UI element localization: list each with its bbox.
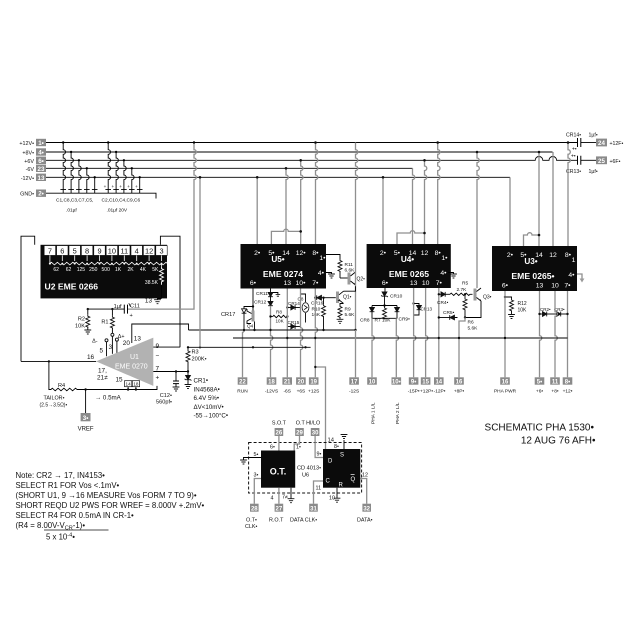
svg-text:ΔV<10mV•: ΔV<10mV•	[194, 404, 224, 411]
svg-text:-6S: -6S	[283, 388, 290, 394]
wire PHA PWR column	[504, 291, 506, 377]
svg-text:SELECT R4 FOR 0.5mA IN CR-1•: SELECT R4 FOR 0.5mA IN CR-1•	[16, 511, 135, 520]
svg-text:Q4: Q4	[247, 324, 254, 329]
wire supply feeds U3 top pins	[510, 143, 570, 247]
svg-text:R10: R10	[312, 307, 321, 313]
svg-text:U2 EME 0266: U2 EME 0266	[45, 282, 99, 292]
svg-text:R12: R12	[518, 301, 527, 307]
svg-text:13: 13	[410, 280, 418, 287]
svg-text:29: 29	[296, 431, 303, 437]
resistor R4 TAILOR	[40, 383, 78, 409]
wire bus C	[188, 346, 311, 348]
svg-text:250: 250	[89, 267, 98, 273]
svg-text:SELECT R1 FOR Vos <.1mV•: SELECT R1 FOR Vos <.1mV•	[16, 481, 120, 490]
wire supply feeds U5 top pins	[257, 143, 318, 245]
svg-text:R8: R8	[276, 310, 282, 315]
node trim terminal plus	[115, 334, 124, 353]
pin 21 -6S	[282, 377, 292, 394]
svg-text:+: +	[156, 375, 160, 382]
svg-text:+12F•: +12F•	[610, 141, 624, 147]
svg-text:7•: 7•	[436, 280, 443, 287]
diode CR17	[221, 307, 253, 331]
pin 23 (-6V)	[26, 165, 46, 173]
svg-text:11: 11	[316, 486, 322, 492]
wire U2 left loop to U1 pin 16	[21, 236, 35, 361]
pin 4 (+8V)	[22, 148, 46, 156]
diode CR14 mid	[286, 301, 300, 310]
resistor R11 6.6K	[326, 255, 355, 279]
svg-text:200K•: 200K•	[192, 357, 207, 363]
svg-text:TAILOR•: TAILOR•	[44, 395, 65, 401]
svg-text:CR9•: CR9•	[399, 317, 411, 323]
op-amp U1 EME 0270	[96, 338, 153, 387]
svg-text:CR2•: CR2•	[540, 307, 551, 312]
pin 29 O.T HI/LO	[295, 421, 320, 437]
svg-text:38.5K: 38.5K	[145, 280, 159, 286]
node -6V rail	[46, 167, 413, 169]
svg-text:(SHORT U1, 9 →16 MEASURE Vos: (SHORT U1, 9 →16 MEASURE Vos FORM 7 TO 9…	[16, 491, 197, 500]
svg-text:6•: 6•	[38, 158, 44, 165]
transistor Q3	[474, 288, 492, 302]
svg-text:9: 9	[97, 246, 101, 255]
svg-text:+12•: +12•	[563, 388, 573, 394]
svg-text:4: 4	[135, 246, 139, 255]
svg-text:4•: 4•	[318, 270, 325, 277]
IC CD4013 flip-flop	[323, 449, 360, 488]
svg-text:U5•: U5•	[271, 255, 284, 264]
svg-text:Q3•: Q3•	[483, 295, 492, 301]
capacitor C11 1uf	[114, 303, 140, 319]
svg-text:30: 30	[312, 431, 319, 437]
wire U5 pin 13 column	[286, 289, 288, 378]
svg-text:8•: 8•	[334, 444, 339, 450]
svg-text:EME 0265: EME 0265	[389, 269, 429, 279]
node +12V rail	[46, 142, 578, 144]
pin 28 O.T CLK	[245, 504, 259, 530]
pin 1 (+12V)	[19, 139, 46, 147]
svg-text:CR11: CR11	[256, 291, 268, 297]
svg-text:1µf•: 1µf•	[589, 169, 598, 175]
svg-text:+: +	[104, 184, 107, 189]
svg-text:11: 11	[120, 246, 128, 255]
svg-text:4•: 4•	[38, 150, 44, 157]
wire +12V to Q2 / -12S column	[356, 143, 358, 331]
wire U1 pin 7 net	[153, 370, 189, 372]
svg-text:6•: 6•	[250, 280, 257, 287]
svg-text:-12V•: -12V•	[21, 176, 34, 182]
svg-text:5•: 5•	[537, 380, 542, 386]
wire U1 pin 16	[21, 360, 96, 362]
svg-text:125: 125	[77, 267, 86, 273]
wire 31 to flip-flop C pin 11	[314, 481, 324, 504]
svg-text:+: +	[112, 184, 115, 189]
svg-text:+: +	[119, 184, 122, 189]
svg-text:28: 28	[251, 506, 258, 512]
svg-text:6•: 6•	[270, 445, 275, 451]
svg-text:2•: 2•	[507, 252, 514, 259]
svg-text:C2,C10,C4,C9,C6: C2,C10,C4,C9,C6	[102, 198, 141, 204]
svg-text:RUN: RUN	[237, 388, 248, 394]
diode CR13	[412, 288, 432, 315]
wire SOT to pin 6	[270, 436, 279, 451]
svg-text:24: 24	[598, 140, 605, 147]
pin 11 +8	[550, 377, 560, 394]
svg-text:9•: 9•	[317, 452, 322, 458]
svg-text:5•: 5•	[394, 250, 401, 257]
svg-text:12: 12	[549, 252, 557, 259]
svg-text:Q: Q	[351, 477, 356, 483]
svg-text:R9: R9	[345, 307, 351, 313]
svg-text:S: S	[340, 453, 344, 459]
wire -12V feed to U1 pin 13 via bus jog	[132, 324, 189, 343]
pin 31 DATA CLK	[290, 504, 318, 524]
svg-text:CR15: CR15	[288, 320, 300, 325]
svg-text:3: 3	[109, 344, 113, 351]
svg-text:-12VS: -12VS	[265, 388, 278, 394]
svg-text:10•: 10•	[296, 280, 307, 287]
svg-text:C: C	[326, 478, 331, 484]
svg-text:S.O.T: S.O.T	[272, 421, 287, 427]
pin 18 -12VS	[265, 377, 278, 394]
svg-text:2•: 2•	[254, 250, 261, 257]
wire bus A (-12 sense)	[189, 329, 357, 331]
svg-text:12: 12	[145, 246, 153, 255]
svg-text:O.T.: O.T.	[270, 467, 287, 477]
pin 5 +6	[535, 377, 545, 394]
svg-text:CR5•: CR5•	[443, 310, 455, 316]
ground at U4 pin 4	[448, 273, 457, 279]
resistor chain 62..5K inside U2	[50, 255, 174, 265]
svg-text:+12V•: +12V•	[19, 141, 34, 147]
svg-text:+6•: +6•	[536, 388, 543, 394]
diode CR16	[311, 295, 336, 306]
wire C11 bias net from +12V	[88, 143, 197, 310]
svg-text:1•: 1•	[319, 255, 326, 262]
svg-text:13: 13	[38, 175, 45, 182]
pin 16 +8P	[454, 377, 465, 394]
pin labels U1	[87, 336, 160, 384]
svg-text:20: 20	[298, 380, 305, 386]
wire U5 pin 10 column	[301, 289, 303, 378]
svg-text:5K: 5K	[152, 267, 159, 273]
wire +8 column	[555, 291, 557, 377]
svg-text:8•: 8•	[435, 250, 442, 257]
wire 28 to O.T. pin 3	[254, 473, 262, 504]
pin 25 (+6F)	[596, 156, 621, 164]
capacitor CR14 1uf	[566, 133, 598, 153]
resistor R2 10K	[75, 308, 91, 334]
svg-text:18: 18	[133, 381, 139, 386]
diode CR6	[439, 301, 481, 320]
svg-text:16K: 16K	[312, 312, 321, 318]
pin 6 (+6V)	[24, 157, 46, 165]
pin 24 (+12F)	[596, 139, 623, 147]
svg-text:EME 0274: EME 0274	[263, 269, 303, 279]
svg-text:12: 12	[362, 473, 368, 479]
diode CR15 mid	[287, 320, 300, 329]
transistor C8 oval	[298, 294, 309, 323]
svg-text:5•: 5•	[254, 452, 259, 458]
svg-text:CD 4013•: CD 4013•	[297, 466, 321, 472]
diode CR9	[372, 306, 410, 323]
svg-text:7≠: 7≠	[282, 495, 288, 501]
IC U4 EME 0265	[367, 244, 451, 288]
svg-text:+6V: +6V	[24, 159, 34, 165]
svg-text:4K: 4K	[140, 267, 147, 273]
node CD 4013 U6 label	[297, 466, 321, 479]
svg-text:R2: R2	[78, 317, 85, 323]
wire supply feeds U4 top pins	[383, 143, 440, 245]
svg-text:7•: 7•	[564, 283, 571, 290]
svg-text:R11: R11	[345, 262, 354, 268]
node -12V rail	[46, 176, 510, 178]
svg-text:-12P•: -12P•	[434, 388, 446, 394]
svg-text:12•: 12•	[296, 250, 307, 257]
node schematic title	[485, 423, 596, 447]
pin 9 -15P	[408, 377, 420, 394]
svg-text:7•: 7•	[312, 280, 319, 287]
svg-text:O.T HI/LO: O.T HI/LO	[296, 421, 320, 427]
svg-text:1•: 1•	[38, 140, 44, 147]
pin 19 +12S	[308, 377, 319, 394]
pin 27 R.O.T	[269, 504, 284, 524]
diode CR10 zener	[381, 288, 402, 307]
wire RUN column	[243, 330, 245, 377]
wire bus B	[233, 337, 568, 339]
svg-text:21: 21	[284, 380, 291, 386]
svg-text:5.6K: 5.6K	[345, 312, 356, 318]
wire O.T. pin 4 to 27	[271, 488, 279, 504]
svg-text:+6S: +6S	[297, 388, 306, 394]
svg-text:+: +	[135, 184, 138, 189]
transistor Q4	[247, 307, 255, 331]
pin 15 +12P	[420, 377, 433, 394]
svg-text:500: 500	[102, 267, 111, 273]
svg-text:C1,C8,C3,C7,C5,: C1,C8,C3,C7,C5,	[56, 198, 93, 204]
svg-text:5: 5	[100, 348, 104, 355]
svg-text:4•: 4•	[440, 270, 447, 277]
svg-text:R5: R5	[462, 281, 468, 287]
svg-text:CR17: CR17	[221, 312, 235, 318]
svg-text:-15P•: -15P•	[408, 388, 420, 394]
svg-text:C11: C11	[130, 304, 140, 310]
svg-text:3•: 3•	[254, 473, 259, 479]
svg-text:.01µf: .01µf	[66, 208, 77, 214]
svg-text:16: 16	[87, 354, 95, 361]
wire +8P column	[458, 318, 465, 378]
svg-text:CR8: CR8	[360, 318, 370, 324]
svg-text:+•: +•	[571, 154, 576, 160]
IC U5 EME 0274	[241, 244, 327, 289]
wire -12S column	[355, 330, 357, 377]
svg-text:8•: 8•	[565, 380, 570, 386]
capacitor bank C1,C8,C3,C7,C5	[60, 143, 139, 194]
wire 30 to pin 9 D	[315, 436, 323, 458]
svg-text:O.T•: O.T•	[246, 518, 257, 524]
svg-text:+8•: +8•	[551, 388, 558, 394]
svg-text:3•: 3•	[83, 415, 89, 422]
diode CR11	[256, 289, 280, 297]
resistor R8	[269, 310, 288, 324]
svg-text:→ 0.5mA: → 0.5mA	[95, 394, 122, 401]
diode CR2	[540, 307, 557, 316]
svg-text:CR14: CR14	[288, 301, 300, 306]
svg-text:6: 6	[60, 246, 64, 255]
pin 13 (-12V)	[21, 174, 46, 182]
svg-text:10•: 10•	[392, 380, 401, 386]
svg-text:13: 13	[134, 336, 142, 343]
pin 20 +6S	[296, 377, 306, 394]
svg-text:10K: 10K	[276, 319, 285, 324]
svg-text:9•: 9•	[411, 380, 416, 386]
svg-text:1µf: 1µf	[114, 304, 122, 310]
resistor R10 16K	[312, 298, 326, 330]
svg-text:1•: 1•	[296, 445, 301, 451]
svg-text:+8V•: +8V•	[22, 151, 34, 157]
svg-text:1K: 1K	[115, 267, 122, 273]
svg-text:Q2•: Q2•	[357, 277, 366, 283]
svg-text:R1: R1	[101, 320, 108, 326]
svg-text:560pf•: 560pf•	[156, 400, 172, 406]
svg-text:PHA 2 L/L: PHA 2 L/L	[395, 402, 401, 424]
transistor Q2	[340, 272, 365, 285]
transistor Q1	[336, 286, 356, 305]
svg-text:62: 62	[66, 267, 72, 273]
wire +8V to Q3	[476, 151, 480, 288]
pin 10 PHA 2 L/L	[392, 377, 402, 424]
wire -12V aux column	[199, 176, 202, 347]
svg-text:+: +	[127, 184, 130, 189]
IC U3 EME 0265	[492, 246, 577, 291]
pin 26 S.O.T	[272, 421, 287, 437]
svg-text:Δ-: Δ-	[92, 339, 98, 345]
svg-text:10K: 10K	[75, 324, 85, 330]
svg-text:1: 1	[572, 257, 576, 264]
svg-text:DATA CLK•: DATA CLK•	[290, 518, 317, 524]
svg-text:DATA•: DATA•	[357, 518, 373, 524]
wire +6 column	[538, 291, 542, 377]
node trim terminal minus	[92, 339, 108, 357]
svg-text:62: 62	[53, 267, 59, 273]
ground at flip-flop R pin 10	[329, 488, 340, 503]
svg-text:+12P•: +12P•	[420, 388, 433, 394]
svg-text:CR13: CR13	[421, 307, 433, 312]
svg-text:2K: 2K	[127, 267, 134, 273]
value label .01uf 20V group2	[102, 198, 141, 214]
svg-text:10: 10	[329, 496, 335, 502]
svg-text:EME 0265•: EME 0265•	[511, 271, 554, 281]
pin 8 +12	[563, 377, 573, 394]
diode CR3	[554, 307, 568, 316]
pin 10 PHA 1 L/L	[367, 377, 377, 424]
flip-flop module dashed box U6	[249, 443, 362, 494]
svg-text:Note: CR2 → 17, IN4153•: Note: CR2 → 17, IN4153•	[16, 471, 106, 480]
resistor R3 200K	[186, 346, 207, 371]
svg-text:U1: U1	[130, 354, 139, 361]
svg-text:19: 19	[310, 380, 317, 386]
svg-text:6•: 6•	[502, 283, 509, 290]
node pin 14 label	[328, 438, 335, 444]
svg-text:CR4•: CR4•	[437, 300, 449, 306]
svg-text:-12S: -12S	[349, 388, 359, 394]
svg-text:6•: 6•	[382, 280, 389, 287]
wire VREF / tailor row	[49, 361, 157, 390]
svg-text:SCHEMATIC PHA 1530•: SCHEMATIC PHA 1530•	[485, 423, 595, 434]
wire U4 pin 13 column	[414, 288, 416, 377]
resistor R6 5.6K	[463, 294, 478, 331]
svg-text:32: 32	[363, 506, 370, 512]
svg-text:2•: 2•	[38, 191, 44, 198]
IC O.T.	[261, 451, 295, 488]
wire U1 pin 9 feedback	[153, 346, 180, 348]
note text block	[16, 471, 205, 542]
svg-text:20: 20	[123, 340, 131, 347]
wire U4 pin 10 column	[426, 288, 428, 377]
svg-text:16: 16	[456, 380, 463, 386]
diode CR1 IN4568A zener	[185, 372, 228, 420]
svg-text:-55→100°C•: -55→100°C•	[194, 413, 229, 420]
svg-text:13: 13	[145, 298, 153, 305]
svg-text:14: 14	[126, 381, 132, 386]
svg-text:CR16: CR16	[311, 301, 324, 307]
svg-text:8•: 8•	[312, 250, 319, 257]
resistor 38.5K	[145, 264, 164, 286]
svg-text:7: 7	[48, 246, 52, 255]
svg-text:EME 0270: EME 0270	[115, 364, 148, 371]
ground at O.T. pin 7	[282, 488, 294, 503]
svg-text:14: 14	[435, 380, 442, 386]
svg-text:(2.5→3.5Ω)•: (2.5→3.5Ω)•	[40, 402, 68, 408]
svg-text:1•: 1•	[441, 255, 448, 262]
svg-text:8: 8	[85, 246, 89, 255]
pin 30	[311, 428, 320, 437]
svg-text:U3•: U3•	[524, 257, 537, 266]
svg-text:16: 16	[502, 380, 509, 386]
svg-text:10: 10	[369, 380, 376, 386]
pin 32 DATA	[357, 504, 373, 524]
pin 3 VREF	[78, 390, 94, 433]
svg-text:25: 25	[598, 158, 605, 165]
wire PHA2 column	[396, 318, 398, 377]
wire U5 pin 7 column	[315, 289, 317, 378]
svg-text:CR12: CR12	[254, 300, 267, 306]
capacitor bank C2,C10,C4,C9,C6	[105, 143, 142, 190]
svg-text:-6V: -6V	[26, 167, 35, 173]
node capbank junctions	[62, 141, 195, 178]
svg-text:2•: 2•	[380, 250, 387, 257]
resistor R1	[101, 308, 114, 354]
svg-text:IN4568A•: IN4568A•	[194, 386, 220, 393]
svg-text:4: 4	[271, 496, 274, 502]
svg-text:+12S: +12S	[308, 388, 319, 394]
svg-text:23: 23	[38, 166, 45, 173]
svg-text:13: 13	[284, 280, 292, 287]
resistor R5 2.7K	[450, 281, 473, 296]
svg-text:Q1•: Q1•	[343, 295, 352, 301]
svg-text:15: 15	[422, 380, 429, 386]
svg-text:+6F•: +6F•	[610, 159, 621, 165]
svg-text:R: R	[339, 482, 344, 488]
svg-text:R3: R3	[192, 350, 199, 356]
svg-text:D: D	[328, 458, 333, 464]
svg-text:13: 13	[536, 283, 544, 290]
svg-text:27: 27	[276, 506, 283, 512]
svg-text:26: 26	[276, 431, 283, 437]
node GND rail	[46, 193, 156, 198]
svg-text:CR1•: CR1•	[194, 378, 209, 385]
ground at flip-flop S pin 8	[334, 435, 347, 450]
svg-text:22: 22	[239, 380, 246, 386]
